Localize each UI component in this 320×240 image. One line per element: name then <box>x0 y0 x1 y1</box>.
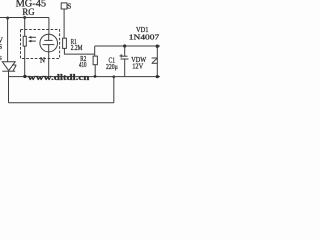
svg-text:S: S <box>0 43 2 51</box>
svg-text:S: S <box>67 2 71 11</box>
wire RG top lead <box>24 18 26 37</box>
wire top rail <box>0 17 49 19</box>
light arrow lower <box>28 40 36 43</box>
node right corner dot <box>156 45 159 48</box>
wire right drop <box>156 46 158 77</box>
light arrow upper <box>28 36 36 39</box>
svg-text:RG: RG <box>22 8 34 18</box>
node RG bottom rail junction <box>23 75 26 78</box>
photoresistor RG body <box>23 36 26 46</box>
capacitor C1 <box>120 46 129 77</box>
node right rail dot <box>156 75 159 78</box>
svg-text:N: N <box>40 57 45 65</box>
wire node rise <box>94 46 96 56</box>
node RG top dot <box>23 16 26 19</box>
svg-text:www.dltdl.cn: www.dltdl.cn <box>28 72 90 82</box>
wire R1 bottom jog to node <box>64 48 94 54</box>
wire mid rail to right <box>95 45 160 47</box>
wire thyristor cathode to bottom rail and down <box>8 71 10 103</box>
neon lamp N <box>40 34 58 52</box>
wire neon top drop <box>48 18 50 35</box>
wire neon bottom lead <box>48 52 50 77</box>
wire S to R1 <box>63 9 65 38</box>
node C1 top dot <box>123 44 126 47</box>
resistor R1 <box>63 38 67 48</box>
component MG-45 dashed module box <box>21 30 60 59</box>
svg-text:220μ: 220μ <box>106 62 118 71</box>
node R2 rail dot <box>94 75 97 78</box>
thyristor VS <box>2 62 16 71</box>
node anode branch dot <box>6 17 9 20</box>
wire lower loop horizontal <box>9 102 114 104</box>
wire lower loop right rise <box>113 77 115 103</box>
svg-text:12V: 12V <box>132 62 143 71</box>
svg-text:S: S <box>0 55 2 62</box>
resistor R2 <box>93 56 97 65</box>
svg-text:410: 410 <box>79 61 87 69</box>
wire bottom rail <box>9 76 161 78</box>
switch S box <box>61 3 67 9</box>
svg-text:1N4007: 1N4007 <box>129 32 160 41</box>
node lower loop dot <box>112 75 115 78</box>
zener diode VDW (cut at edge) <box>152 58 158 63</box>
wire thyristor anode drop <box>7 18 9 62</box>
wire R2 bottom lead <box>94 65 96 77</box>
wire RG bottom lead <box>24 46 26 77</box>
svg-text:2.2M: 2.2M <box>71 44 83 52</box>
